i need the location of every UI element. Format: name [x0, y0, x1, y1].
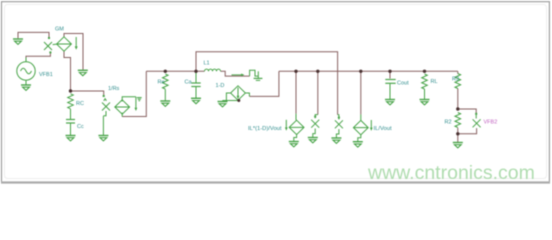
- svg-text:IL*(1-D)/Vout: IL*(1-D)/Vout: [248, 126, 282, 132]
- svg-text:www.cntronics.com: www.cntronics.com: [367, 162, 535, 184]
- svg-text:Re: Re: [158, 80, 165, 86]
- svg-text:Cout: Cout: [397, 81, 409, 87]
- svg-text:L1: L1: [204, 61, 210, 67]
- svg-text:R2: R2: [445, 120, 452, 126]
- svg-text:GM: GM: [55, 27, 64, 33]
- svg-text:RC: RC: [76, 101, 84, 107]
- svg-text:RL: RL: [431, 79, 438, 85]
- svg-text:IL/Vout: IL/Vout: [374, 126, 392, 132]
- svg-text:VFB1: VFB1: [39, 72, 53, 78]
- svg-text:Cc: Cc: [77, 124, 84, 130]
- svg-text:Ca: Ca: [185, 80, 193, 86]
- svg-text:R3: R3: [452, 77, 459, 83]
- svg-text:VFB2: VFB2: [484, 120, 498, 126]
- svg-text:1/Rs: 1/Rs: [108, 86, 120, 92]
- svg-text:1-D: 1-D: [216, 83, 225, 89]
